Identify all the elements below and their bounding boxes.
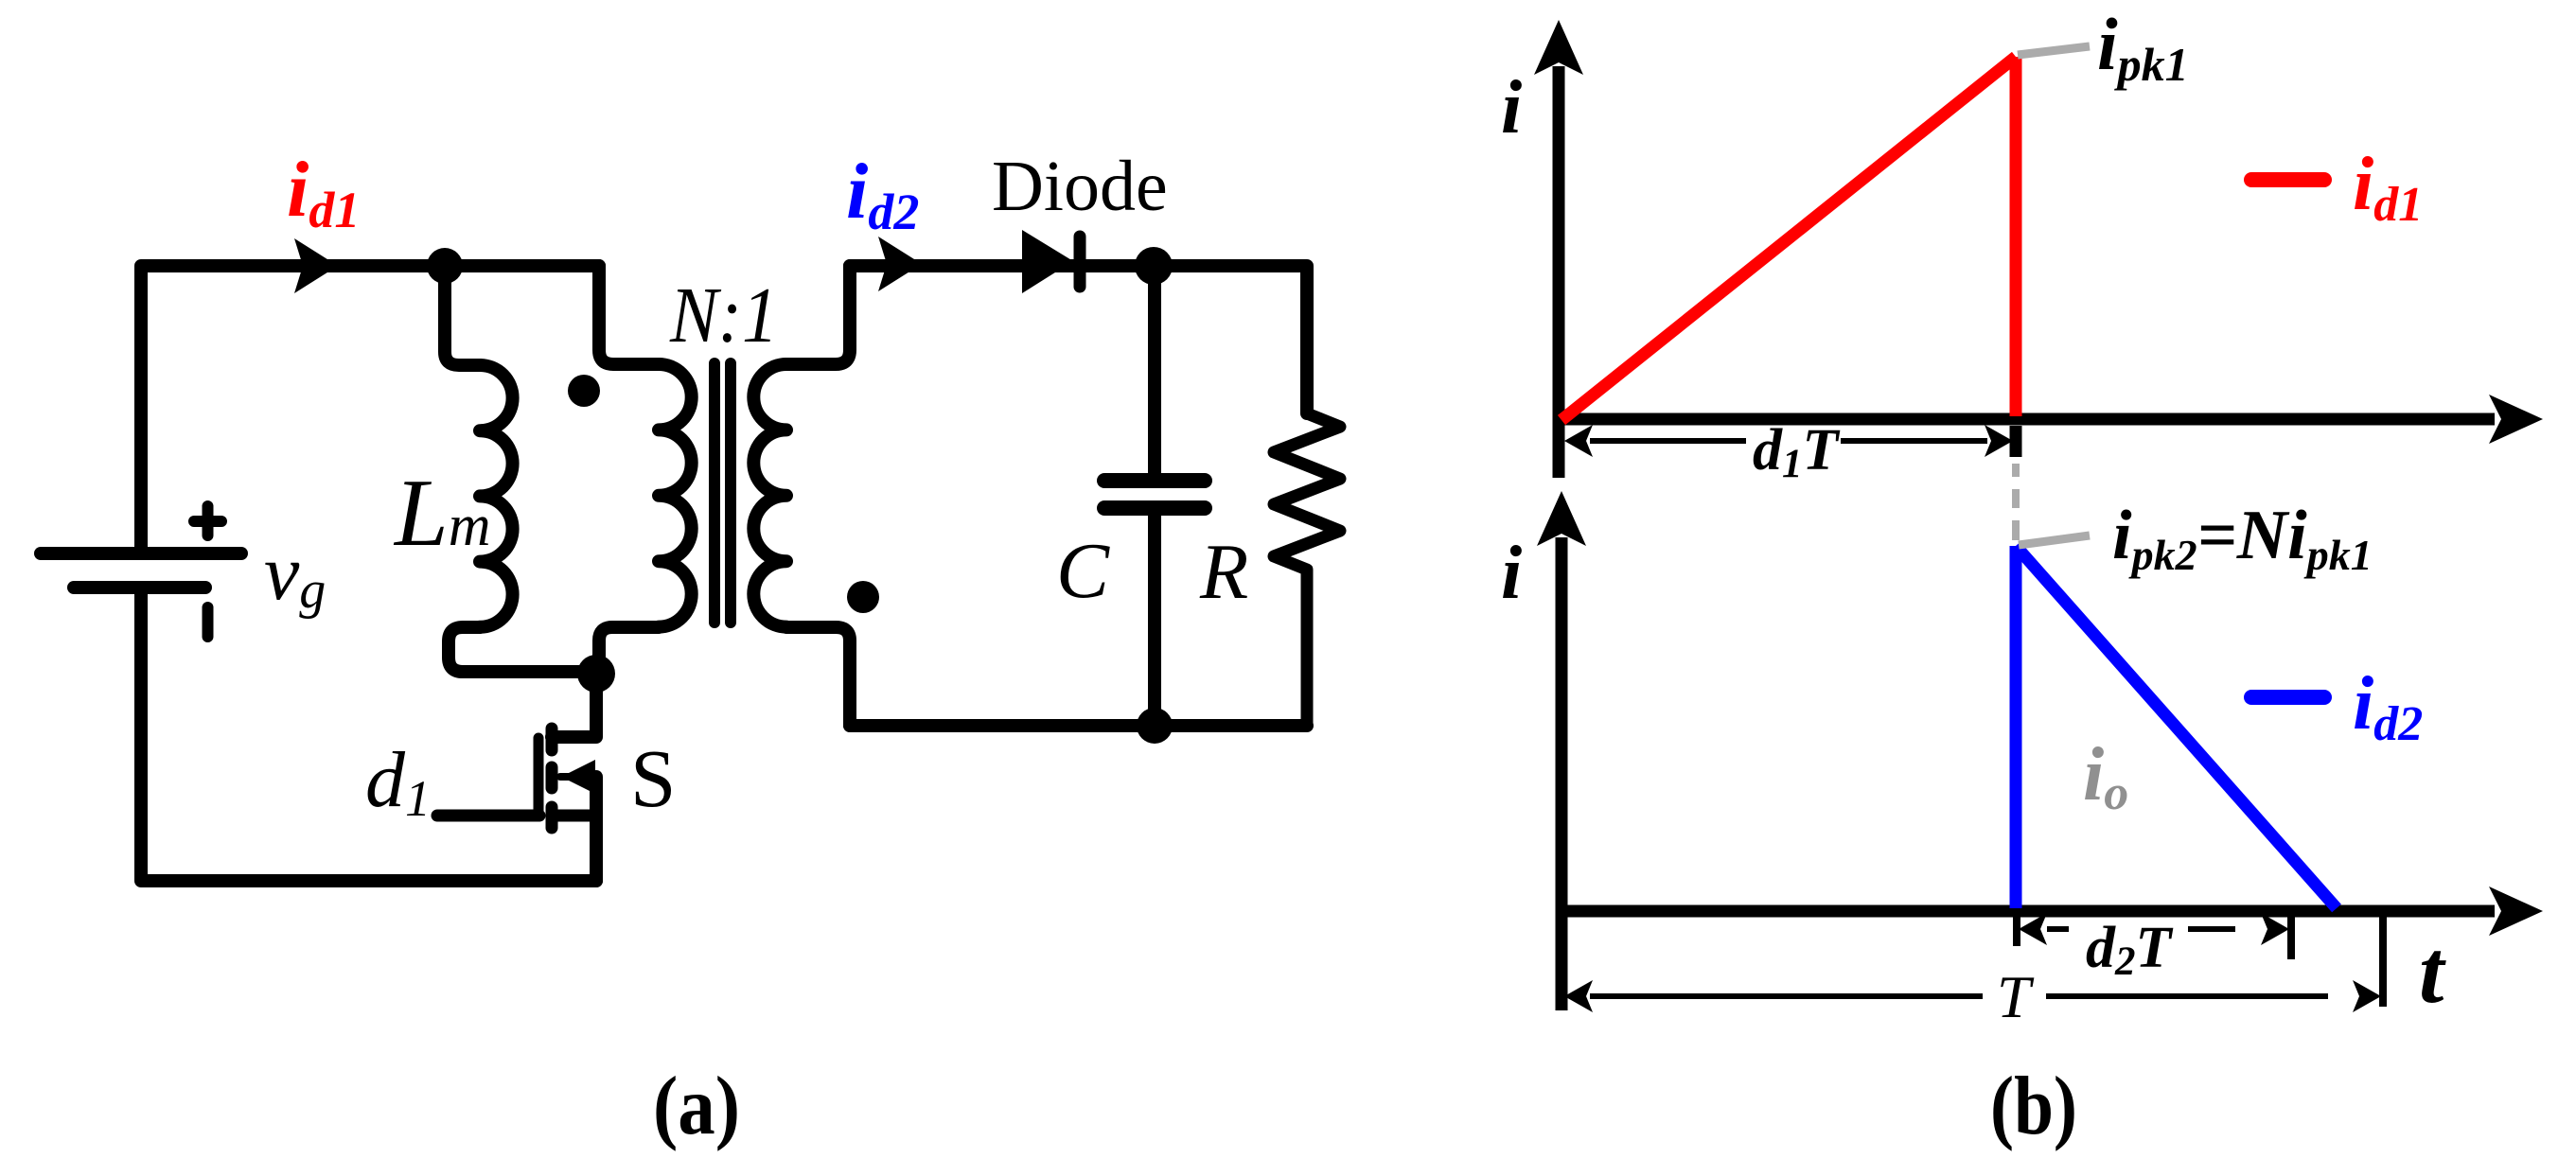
polarity dot primary [568, 375, 600, 407]
junction dot node A (top left) [427, 248, 463, 284]
dimension d1T right arrowhead [1985, 425, 2013, 457]
wire secondary lead bottom [786, 627, 850, 726]
mosfet S gate lead [437, 810, 539, 822]
dimension T end tick [2379, 912, 2387, 1007]
svg-text:(b): (b) [1990, 1061, 2077, 1152]
capacitor C bottom lead [1148, 517, 1161, 726]
wire primary lead bottom [599, 627, 659, 674]
wire secondary lead top [786, 266, 850, 364]
svg-text:(a): (a) [653, 1061, 740, 1152]
mosfet S source wire [590, 777, 603, 881]
capacitor C bottom plate [1104, 500, 1205, 516]
plot2 y-axis arrowhead [1537, 491, 1586, 546]
dimension d1T line left [1590, 438, 1746, 444]
svg-text:R: R [1199, 528, 1248, 616]
wire left vertical lower (battery minus to bottom rail) [141, 594, 596, 881]
gray callout line ipk2 [2019, 535, 2090, 545]
wire Lm branch bottom [449, 627, 596, 672]
mosfet S body arrow [561, 760, 595, 794]
waveform id1 ramp (red) [1561, 57, 2016, 420]
waveform id1 fall (red vertical) [2010, 57, 2022, 416]
mosfet S channel segment bottom [546, 807, 558, 828]
plot1 y-axis [1553, 66, 1565, 478]
inductor Lm winding [480, 365, 513, 627]
mosfet S body stub [560, 773, 596, 781]
legend id2 sample line (blue) [2251, 690, 2324, 705]
wire secondary top rail (to diode and R corner) [850, 266, 1307, 413]
polarity dot secondary [847, 581, 879, 613]
wire top rail left (vg to primary corner) [141, 266, 599, 547]
capacitor C top lead [1148, 266, 1161, 472]
plot2 x-axis [1561, 905, 2495, 918]
dimension d2T end tick [2287, 917, 2295, 959]
mosfet S drain wire [552, 674, 596, 737]
plot1 x-axis [1559, 413, 2495, 426]
legend id1 sample line (red) [2251, 172, 2324, 187]
dimension T right arrowhead [2353, 980, 2381, 1012]
current arrow id1 [294, 238, 338, 293]
wire Lm branch top [445, 269, 480, 365]
tick below axis at blue vertical [2013, 917, 2020, 946]
svg-text:C: C [1056, 527, 1110, 615]
junction dot node D (output bottom) [1137, 708, 1173, 744]
dimension T line right [2046, 993, 2328, 999]
svg-text:t: t [2419, 921, 2446, 1022]
gray dashed projection line [2012, 464, 2020, 540]
svg-text:i: i [1501, 66, 1522, 149]
plot2 y-axis [1556, 537, 1568, 1010]
dimension d2T left arrowhead [2019, 913, 2047, 945]
battery vg negative plate [74, 581, 205, 594]
dimension d2T line left [2047, 926, 2069, 932]
svg-text:N:1: N:1 [669, 272, 778, 360]
dimension T line left [1590, 993, 1983, 999]
battery minus mark [203, 607, 214, 637]
transformer core line left [709, 363, 720, 623]
resistor R zigzag [1274, 413, 1340, 726]
plot1 x-axis arrowhead [2489, 395, 2543, 444]
current arrow id2 [878, 237, 922, 291]
plot1 y-axis arrowhead [1534, 20, 1583, 75]
junction dot node C (diode cathode) [1135, 247, 1173, 285]
battery plus sign [194, 506, 221, 535]
dimension d1T line right [1841, 438, 1987, 444]
dimension T left arrowhead [1564, 980, 1593, 1012]
diode D cathode bar [1074, 237, 1086, 287]
svg-text:i: i [1501, 532, 1522, 615]
wire output bottom rail [850, 719, 1307, 732]
svg-text:Diode: Diode [992, 147, 1168, 226]
diode D triangle [1022, 230, 1073, 293]
transformer secondary winding [753, 364, 786, 627]
svg-text:S: S [630, 732, 676, 824]
capacitor C top plate [1104, 473, 1205, 488]
mosfet S channel segment middle [546, 767, 558, 788]
waveform id2 vertical rise (blue) [2010, 546, 2022, 908]
gray callout line ipk1 [2018, 46, 2090, 55]
dimension d2T right arrowhead [2261, 913, 2289, 945]
mosfet S channel segment top [546, 728, 558, 750]
mosfet S gate bar [534, 738, 544, 816]
mosfet S source stub [552, 810, 596, 822]
dimension d2T line right [2188, 926, 2235, 932]
junction dot node B (Lm/primary/mosfet) [577, 655, 615, 693]
transformer core line right [725, 363, 736, 623]
tick below axis at d1T [2010, 426, 2022, 457]
svg-text:T: T [1997, 963, 2035, 1030]
plot2 x-axis arrowhead [2489, 886, 2543, 936]
wire primary lead top [599, 266, 659, 364]
waveform id2 ramp down (blue) [2016, 546, 2337, 908]
dimension d1T left arrowhead [1564, 425, 1593, 457]
battery vg positive plate [41, 547, 241, 560]
transformer primary winding [659, 364, 692, 627]
